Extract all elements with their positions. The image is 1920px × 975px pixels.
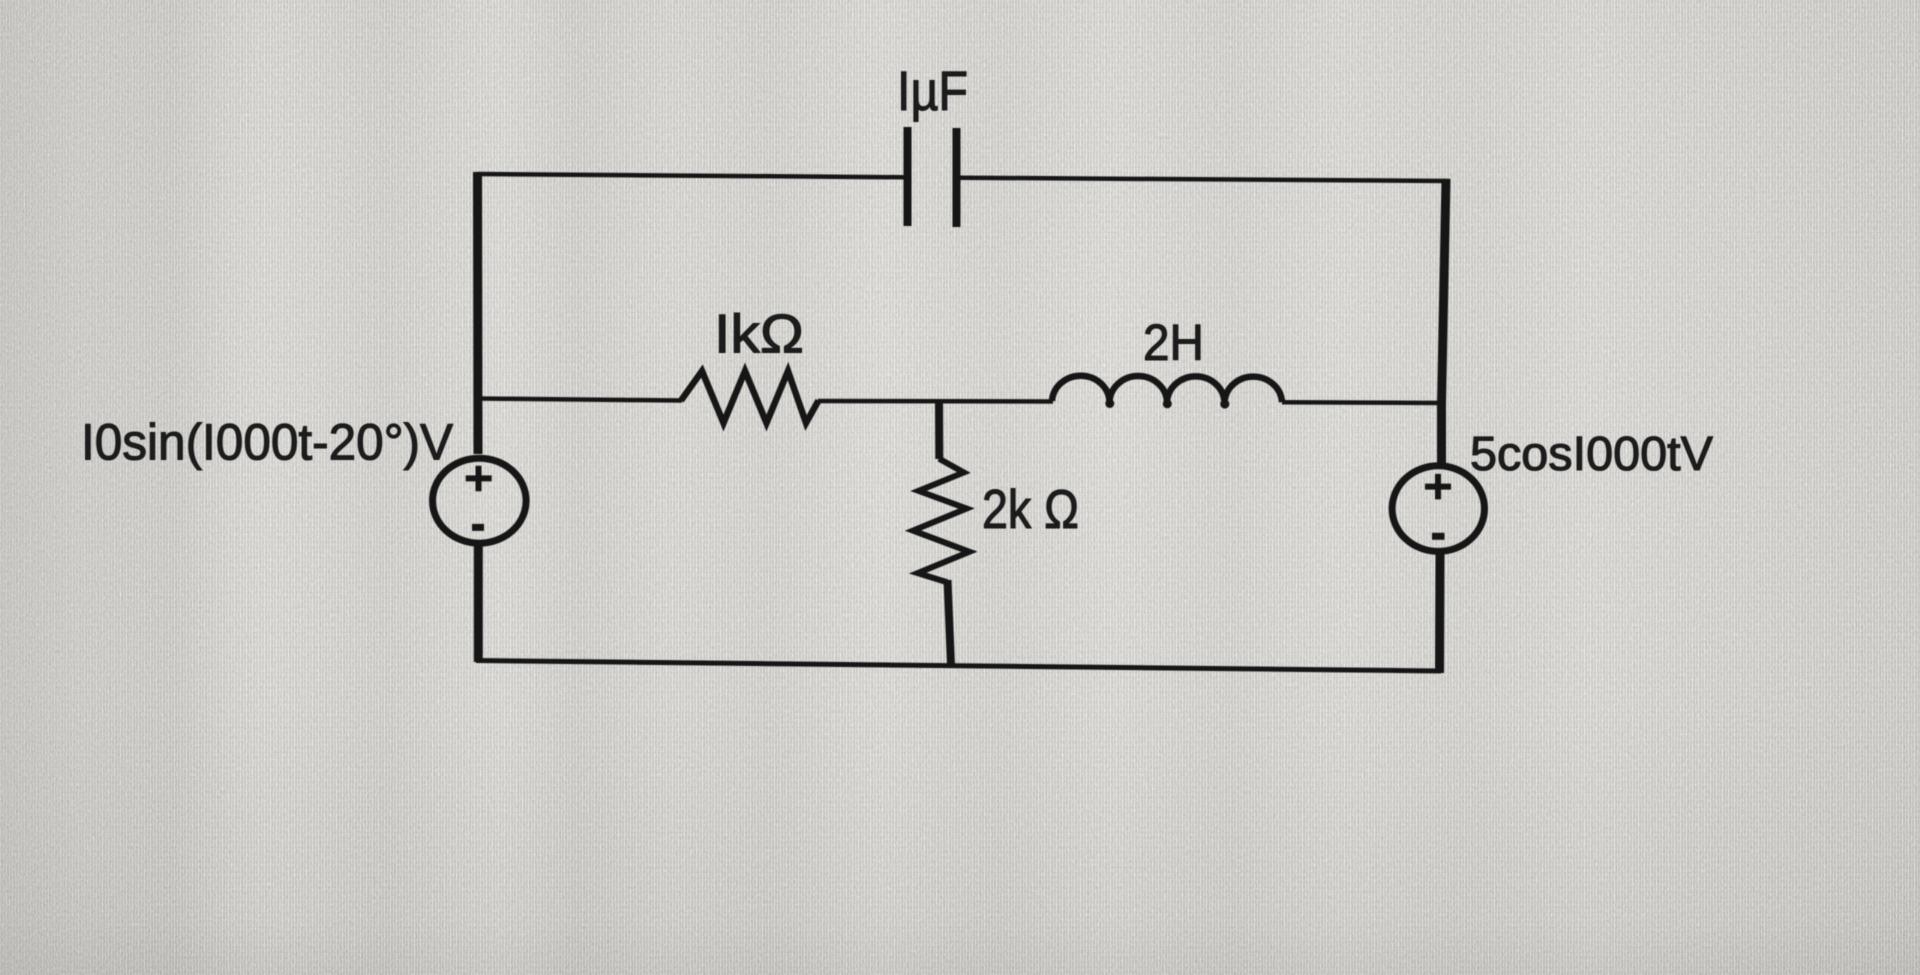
voltage source V1 circle [433, 458, 527, 543]
capacitor C1 1uF left plate [904, 127, 912, 226]
inductor L1 2H [1052, 376, 1282, 402]
wire middle right segment [1282, 400, 1443, 405]
wire middle center segment [818, 399, 1053, 404]
V1 plus sign [466, 466, 492, 492]
inductor L1 cusp joints [1105, 399, 1114, 408]
wire middle left segment [478, 399, 682, 401]
svg-text:5cosI000tV: 5cosI000tV [1470, 428, 1713, 481]
wire top left segment [477, 174, 904, 177]
wire 2k branch lower [948, 580, 952, 665]
wire left vertical lower [474, 545, 483, 662]
capacitor C1 1uF right plate [953, 128, 961, 227]
wire right vertical upper [1442, 179, 1447, 463]
wire right vertical lower [1435, 554, 1445, 673]
svg-text:2k Ω: 2k Ω [982, 478, 1079, 540]
V1 minus sign [472, 524, 484, 531]
resistor R2 2k ohm zigzag [913, 459, 969, 583]
wire left vertical upper [473, 172, 483, 454]
svg-text:IkΩ: IkΩ [714, 303, 804, 365]
wire bottom [476, 661, 1441, 672]
V2 plus sign [1425, 474, 1451, 500]
svg-text:I0sin(I000t-20°)V: I0sin(I000t-20°)V [81, 414, 453, 471]
wire 2k branch upper [935, 400, 943, 459]
voltage source V2 circle [1392, 466, 1484, 552]
wire top right segment [961, 178, 1451, 181]
V2 minus sign [1432, 533, 1445, 540]
svg-text:IµF: IµF [897, 59, 968, 122]
resistor R1 1k ohm zigzag [681, 371, 819, 423]
svg-text:2H: 2H [1143, 314, 1204, 371]
